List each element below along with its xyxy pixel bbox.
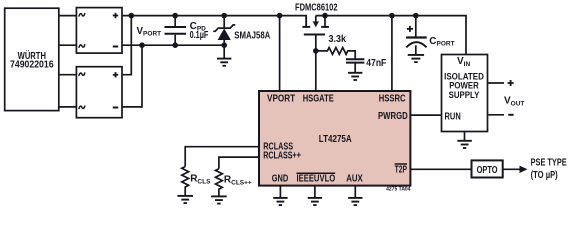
ground below CPORT [408, 54, 424, 56]
svg-text:PSE TYPE: PSE TYPE [531, 157, 567, 168]
IC U1 LT4275A [259, 91, 410, 186]
node rail-VPORT pin [277, 13, 283, 19]
diode bridge BR2 [76, 67, 122, 118]
resistor 3.3k [316, 48, 355, 59]
node rail-SMAJ [221, 13, 227, 19]
bridge1 plus [113, 15, 118, 17]
svg-text:T2P: T2P [395, 164, 408, 175]
capacitor CPORT [415, 16, 417, 37]
svg-text:749022016: 749022016 [10, 60, 54, 71]
svg-text:GND: GND [272, 173, 289, 184]
node rail-CPORT [413, 13, 419, 19]
svg-text:HSGATE: HSGATE [303, 94, 334, 105]
resistor RCLS++ [216, 169, 223, 197]
svg-text:4275 TA04: 4275 TA04 [386, 187, 411, 193]
opto isolator box [472, 160, 503, 177]
node gate-3.3k [313, 48, 319, 54]
wire GND pin to ground [279, 186, 281, 198]
wire VOUT minus stub [488, 114, 505, 116]
minus of VOUT [508, 114, 513, 116]
wire VOUT plus stub [488, 82, 505, 84]
svg-text:47nF: 47nF [366, 58, 386, 69]
svg-text:PWRGD: PWRGD [378, 111, 408, 122]
TVS diode D1 SMAJ58A [223, 16, 225, 29]
wire RCLASS++ to RCLS++ [219, 157, 259, 169]
svg-text:IEEEUVLO: IEEEUVLO [297, 173, 336, 184]
bridge1 minus [113, 46, 118, 48]
ground below SMAJ58A [217, 58, 231, 60]
node lower-bridge2- [139, 42, 145, 48]
svg-text:RUN: RUN [445, 111, 461, 122]
svg-text:RCLS: RCLS [190, 174, 211, 186]
wire bridge2 minus to lower rail [122, 45, 142, 107]
capacitor CPD [174, 16, 176, 27]
resistor RCLS [182, 167, 189, 196]
transformer WÜRTH 749022016 [5, 8, 59, 110]
wire xfmr to bridge2 bottom [59, 106, 77, 108]
ground below supply [464, 132, 466, 141]
svg-text:SMAJ58A: SMAJ58A [234, 30, 270, 41]
svg-text:FDMC86102: FDMC86102 [295, 2, 338, 13]
node lower-CPD [172, 42, 178, 48]
svg-text:RCLASS++: RCLASS++ [263, 151, 301, 162]
svg-text:VPORT: VPORT [137, 26, 162, 38]
ground below AUX pin [348, 197, 362, 199]
wire bridge2 plus to top rail [122, 16, 131, 75]
node rail-HSSRC [389, 13, 395, 19]
wire lower rail VPORT- [122, 44, 224, 46]
svg-text:HSSRC: HSSRC [379, 94, 406, 105]
svg-text:OPTO: OPTO [477, 165, 498, 176]
wire gate to HSGATE pin [315, 36, 317, 92]
wire RCLASS to RCLS [185, 147, 259, 167]
wire top rail right segment [316, 16, 466, 55]
node rail-bridge2+ [129, 13, 135, 19]
wire xfmr to bridge1 bottom [59, 44, 77, 46]
plus of CPORT [407, 28, 413, 30]
svg-text:AUX: AUX [346, 173, 363, 184]
svg-text:VOUT: VOUT [504, 96, 524, 108]
svg-text:VIN: VIN [457, 56, 470, 68]
capacitor 47nF [346, 58, 364, 60]
diode bridge BR1 [76, 8, 122, 54]
bridge2 plus [113, 74, 118, 76]
svg-text:0.1µF: 0.1µF [190, 30, 209, 41]
svg-text:VPORT: VPORT [267, 94, 295, 105]
wire IEEEUVLO pin to ground [314, 186, 316, 198]
wire xfmr to bridge1 top [59, 15, 77, 17]
ground below RCLS++ [211, 195, 227, 197]
plus of VOUT [508, 82, 514, 84]
wire T2P to OPTO [410, 168, 471, 170]
junction dots [129, 13, 419, 54]
svg-text:(TO µP): (TO µP) [531, 170, 558, 181]
ground below 47nF [348, 72, 362, 74]
svg-text:SUPPLY: SUPPLY [449, 90, 480, 100]
wire top rail VPORT+ [122, 16, 306, 27]
transistor Q1 FDMC86102 [305, 16, 307, 27]
wire VPORT pin to rail [279, 16, 281, 91]
wire AUX pin to ground [354, 186, 356, 198]
ground below GND pin [273, 197, 287, 199]
svg-text:3.3k: 3.3k [329, 34, 347, 45]
bridge2 minus [113, 107, 118, 109]
wire OPTO to arrow [503, 168, 520, 170]
plus and minus terminal marks [113, 13, 514, 115]
wire PWRGD to RUN [410, 114, 441, 116]
svg-text:LT4275A: LT4275A [319, 134, 352, 145]
svg-text:CPORT: CPORT [429, 36, 454, 48]
bridge1 ac marks [79, 14, 85, 16]
bridge2 ac marks [79, 73, 85, 75]
node rail-CPD [172, 13, 178, 19]
ground below IEEEUVLO pin [308, 197, 322, 199]
wire xfmr to bridge2 top [59, 74, 77, 76]
ground below RCLS [177, 195, 193, 197]
wire HSSRC pin to rail [391, 16, 393, 91]
node lower-SMAJ [221, 42, 227, 48]
svg-text:RCLS++: RCLS++ [224, 175, 252, 187]
node rail-source [322, 13, 328, 19]
isolated power supply block [442, 55, 488, 132]
